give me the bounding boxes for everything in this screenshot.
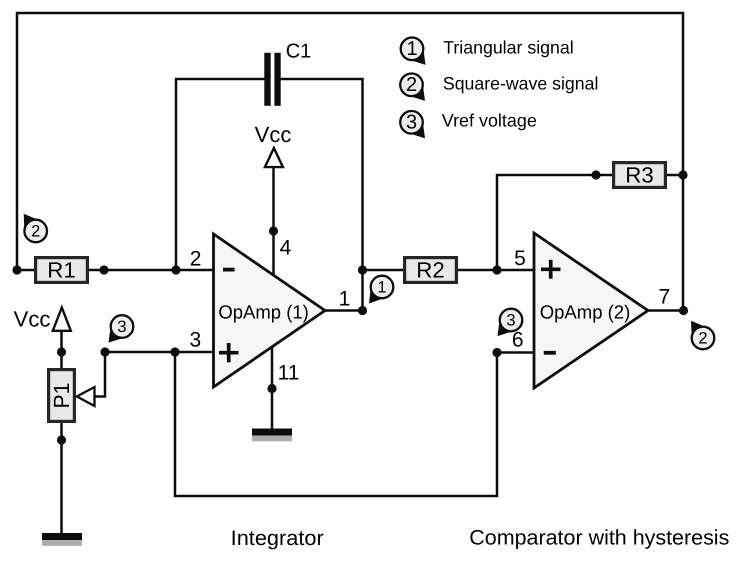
potentiometer P1: [49, 370, 75, 422]
junction dot: dot on pin 11 ground wire: [267, 384, 276, 393]
junction dot: node 5: op-amp U2 non-inverting input: [492, 265, 501, 274]
junction dot: junction of C1 left branch with pin 2 net: [171, 265, 180, 274]
wire: node 1 branch to R2 left terminal: [363, 269, 405, 272]
wire: op-amp U1 pin 11 down to ground: [271, 347, 274, 430]
junction dot: dot at R3 left terminal: [591, 170, 600, 179]
svg-text:3: 3: [189, 329, 201, 352]
wire: wiper node to op-amp U1 non-inverting input (pin 3): [105, 351, 214, 354]
svg-text:Triangular signal: Triangular signal: [443, 38, 574, 58]
junction dot: node 3: wiper connection: [100, 347, 109, 356]
junction dot: node 1: op-amp U1 output: [358, 306, 367, 315]
wire: R2 right terminal to op-amp U2 non-inverting input (pin 5): [457, 269, 535, 272]
op-amp U2 non-inverting input marker (+): [541, 260, 561, 279]
junction dot: junction of bottom feedback with pin 3 net: [170, 347, 179, 356]
op-amp U2 inverting input marker (-): [544, 351, 556, 355]
legend marker 1: [401, 38, 426, 65]
resistor R3: [614, 163, 666, 188]
junction dot: dot below potentiometer P1: [57, 435, 66, 444]
svg-text:5: 5: [514, 247, 526, 270]
junction dot: junction node 1 branch to R2: [358, 265, 367, 274]
wire: op-amp U1 output to node 1: [324, 309, 363, 312]
resistor R2: [405, 258, 457, 283]
svg-text:1: 1: [406, 38, 417, 60]
wire: R3 right terminal to output net: [666, 174, 683, 177]
svg-text:Comparator with hysteresis: Comparator with hysteresis: [469, 526, 729, 549]
callout marker 1 at op-amp U1 output node: [369, 276, 393, 304]
svg-text:C1: C1: [286, 41, 312, 63]
junction dot: node 6: op-amp U2 inverting input: [492, 348, 501, 357]
wire: Vcc arrow down to op-amp U1 pin 4: [272, 167, 275, 276]
svg-text:R2: R2: [416, 258, 445, 283]
svg-text:3: 3: [406, 112, 417, 134]
junction dot: node at R1 input / feedback corner: [12, 265, 21, 274]
svg-text:OpAmp (1): OpAmp (1): [218, 303, 309, 324]
wire: op-amp U2 output (pin 7) to output node: [647, 309, 684, 312]
svg-text:11: 11: [278, 362, 300, 385]
wire: wiper arrow to node 3 net: [95, 352, 105, 397]
callout marker 2 at feedback node (top left): [24, 214, 47, 243]
callout marker 2 at op-amp U2 output node: [691, 321, 714, 350]
wire: feedback from R1 input node up over the top to comparator output node: [17, 13, 683, 311]
ground under potentiometer P1: [42, 533, 82, 546]
potentiometer P1 wiper arrow: [77, 387, 95, 406]
op-amp U1 inverting input marker (-): [223, 268, 235, 272]
svg-text:OpAmp (2): OpAmp (2): [540, 303, 631, 324]
svg-text:7: 7: [658, 286, 670, 309]
legend marker 3: [400, 111, 425, 138]
svg-text:1: 1: [339, 288, 351, 311]
wire: potentiometer P1 bottom down to ground: [60, 422, 63, 534]
junction dot: dot above potentiometer P1: [57, 347, 66, 356]
wire: feedback loop from node 6 down, across the bottom, up to pin 3 net: [175, 352, 497, 496]
callout marker 3 at wiper node: [109, 315, 134, 342]
resistor R1: [36, 258, 88, 283]
wire: C1 right branch down to op-amp U1 output node: [281, 79, 363, 311]
svg-text:R3: R3: [625, 163, 654, 188]
op-amp U1 OpAmp (1) triangle: [214, 234, 326, 387]
svg-text:Integrator: Integrator: [231, 527, 324, 550]
svg-text:Vcc: Vcc: [255, 122, 292, 147]
svg-text:Square-wave signal: Square-wave signal: [443, 74, 599, 94]
svg-text:Vcc: Vcc: [14, 307, 51, 332]
svg-text:R1: R1: [47, 258, 76, 283]
capacitor C1: [264, 53, 280, 106]
wire: R1 right terminal to op-amp U1 inverting input (pin 2): [88, 269, 214, 272]
svg-text:2: 2: [190, 248, 202, 271]
svg-text:4: 4: [280, 236, 292, 259]
svg-text:2: 2: [31, 222, 40, 240]
svg-text:1: 1: [377, 278, 386, 296]
wire: node 6 to op-amp U2 inverting input: [497, 351, 535, 354]
junction dot: dot at R1 right terminal: [99, 265, 108, 274]
wire: C1 left branch down to inverting-input net: [176, 79, 265, 270]
power symbol Vcc above op-amp U1 pin 4: [255, 122, 292, 167]
ground under op-amp U1 pin 11: [252, 429, 292, 442]
op-amp U2 OpAmp (2) triangle: [534, 233, 648, 388]
svg-text:2: 2: [698, 329, 707, 347]
callout marker 3 at node 6: [498, 309, 523, 336]
op-amp U1 non-inverting input marker (+): [219, 343, 239, 362]
svg-text:Vref voltage: Vref voltage: [442, 111, 537, 131]
svg-text:3: 3: [117, 318, 126, 336]
svg-text:2: 2: [406, 74, 417, 96]
junction dot: junction of R3 right terminal with feedback line: [678, 170, 687, 179]
svg-text:3: 3: [506, 311, 515, 329]
wire: left node to R1 left terminal: [17, 269, 35, 272]
legend marker 2: [400, 74, 425, 101]
wire: Vcc arrow down to potentiometer P1 top: [60, 330, 63, 369]
junction dot: node 7: op-amp U2 output: [679, 306, 688, 315]
junction dot: dot on pin 4 supply wire: [269, 226, 278, 235]
svg-text:P1: P1: [49, 383, 74, 409]
wire: node 5 up and across to R3 left terminal: [497, 175, 613, 270]
power symbol Vcc above potentiometer P1: [14, 307, 71, 332]
